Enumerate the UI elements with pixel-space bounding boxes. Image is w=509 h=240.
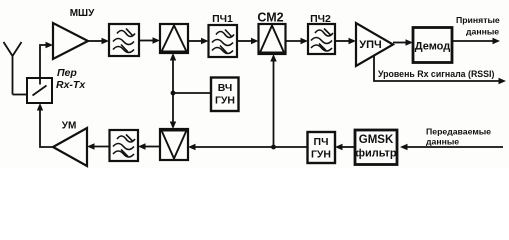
filter GMSK фильтр [355, 130, 397, 165]
svg-text:СМ2: СМ2 [257, 11, 283, 25]
switch S1 Пер Rx-Tx [27, 78, 52, 103]
svg-text:данные: данные [426, 137, 459, 147]
wire LO2: ПЧ ГУН line up into СМ2 [273, 56, 275, 147]
junction dot LO2 [271, 145, 276, 150]
wire ПЧ1 to mixer СМ2 [237, 40, 252, 42]
wire ВЧ ГУН to LO1 junction [173, 92, 211, 94]
svg-text:ПЧ: ПЧ [314, 136, 329, 148]
wire mixer CM3 to Tx filter [144, 146, 160, 148]
wire RSSI output [374, 55, 500, 81]
wire filter to mixer CM1 [139, 40, 154, 42]
wire СМ2 to ПЧ2 filter [286, 40, 303, 42]
svg-text:данные: данные [466, 27, 499, 37]
wire transmit-data input [402, 146, 503, 148]
amplifier УМ (PA) [53, 128, 87, 166]
wire switch to LNA [40, 45, 46, 78]
amplifier МШУ (LNA) [53, 23, 88, 59]
svg-text:фильтр: фильтр [355, 148, 397, 160]
label Передаваемые данные [426, 127, 491, 147]
svg-text:Передаваемые: Передаваемые [426, 127, 491, 137]
oscillator ВЧ ГУН (RF VCO) [211, 78, 239, 112]
svg-text:УМ: УМ [62, 121, 77, 132]
filter ПЧ2 (IF2 bandpass) [308, 24, 335, 54]
svg-text:Rx-Tx: Rx-Tx [56, 79, 86, 91]
mixer СМ2 [259, 24, 286, 54]
mixer CM3 (transmit up-mixer) [160, 129, 188, 160]
svg-text:Принятые: Принятые [456, 15, 500, 25]
filter F1 (RF bandpass) [109, 24, 139, 56]
wire LO1: mixer CM1 to down-mixer [172, 55, 174, 127]
svg-text:Уровень Rx сигнала (RSSI): Уровень Rx сигнала (RSSI) [378, 69, 494, 79]
wire LNA to RF filter [88, 40, 103, 42]
svg-text:ГУН: ГУН [311, 149, 331, 161]
svg-text:УПЧ: УПЧ [359, 39, 381, 51]
wire GMSK to ПЧ ГУН [341, 146, 355, 148]
mixer CM1 [160, 24, 188, 53]
svg-text:ВЧ: ВЧ [218, 82, 233, 94]
wire ПЧ ГУН to down-mixer [194, 146, 308, 148]
wire antenna to Rx-Tx switch [13, 94, 28, 96]
filter F2 (Tx bandpass) [110, 130, 139, 161]
demodulator Демод [413, 28, 452, 63]
antenna [4, 42, 22, 95]
wire УПЧ to Демод [393, 42, 407, 44]
svg-text:МШУ: МШУ [70, 8, 95, 19]
wire Демод to received-data output [452, 40, 494, 42]
wire mixer CM1 to IF1 filter [188, 40, 202, 42]
svg-text:ГУН: ГУН [215, 95, 235, 107]
amplifier УПЧ (IF amp) [356, 23, 393, 66]
filter ПЧ1 (IF1 bandpass) [209, 25, 238, 57]
wire Tx filter to УМ [93, 146, 110, 148]
junction dot LO1 [171, 91, 176, 96]
svg-text:GMSK: GMSK [359, 134, 394, 146]
svg-text:ПЧ1: ПЧ1 [212, 13, 233, 25]
wire УМ to switch [40, 107, 53, 147]
wire ПЧ2 to УПЧ [335, 40, 350, 42]
label Пер Rx-Tx [56, 67, 86, 91]
label Принятые данные [456, 15, 500, 37]
oscillator ПЧ ГУН (IF VCO) [308, 132, 336, 163]
svg-text:Пер: Пер [57, 67, 77, 79]
svg-text:Демод: Демод [415, 41, 451, 53]
